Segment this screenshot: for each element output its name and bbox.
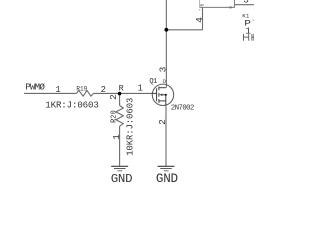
svg-text:R19: R19 [76,86,87,93]
svg-text:2N7002: 2N7002 [171,105,194,113]
svg-text:10KR:J:0603: 10KR:J:0603 [126,98,136,156]
svg-text:GND: GND [156,172,178,186]
svg-text:D: D [163,79,166,85]
svg-text:R: R [119,83,124,93]
svg-text:2: 2 [108,94,119,100]
svg-text:3: 3 [158,66,169,72]
svg-text:2: 2 [157,119,168,125]
svg-text:Q1: Q1 [149,78,157,86]
svg-text:R20: R20 [111,110,119,123]
svg-text:GND: GND [111,172,132,186]
svg-text:1: 1 [55,85,60,95]
svg-text:1: 1 [245,25,251,36]
svg-text:PWMØ: PWMØ [25,82,45,93]
svg-text:1: 1 [111,134,122,140]
svg-text:1KR:J:0603: 1KR:J:0603 [45,100,98,111]
svg-text:2: 2 [101,85,106,95]
svg-text:1: 1 [138,83,143,93]
svg-text:4: 4 [194,17,205,23]
svg-text:3: 3 [243,0,248,5]
